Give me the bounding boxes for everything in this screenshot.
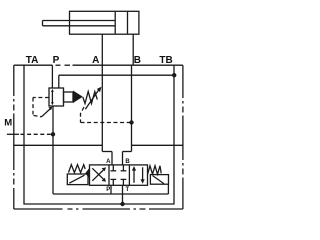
svg-text:P: P <box>53 55 60 66</box>
svg-text:A: A <box>92 55 99 66</box>
svg-text:B: B <box>134 55 141 66</box>
svg-text:M: M <box>4 117 12 128</box>
svg-text:P: P <box>106 187 110 193</box>
svg-text:B: B <box>125 159 130 165</box>
svg-text:A: A <box>106 159 111 165</box>
svg-text:TA: TA <box>26 55 39 66</box>
svg-text:TB: TB <box>159 55 172 66</box>
svg-text:T: T <box>125 187 129 193</box>
